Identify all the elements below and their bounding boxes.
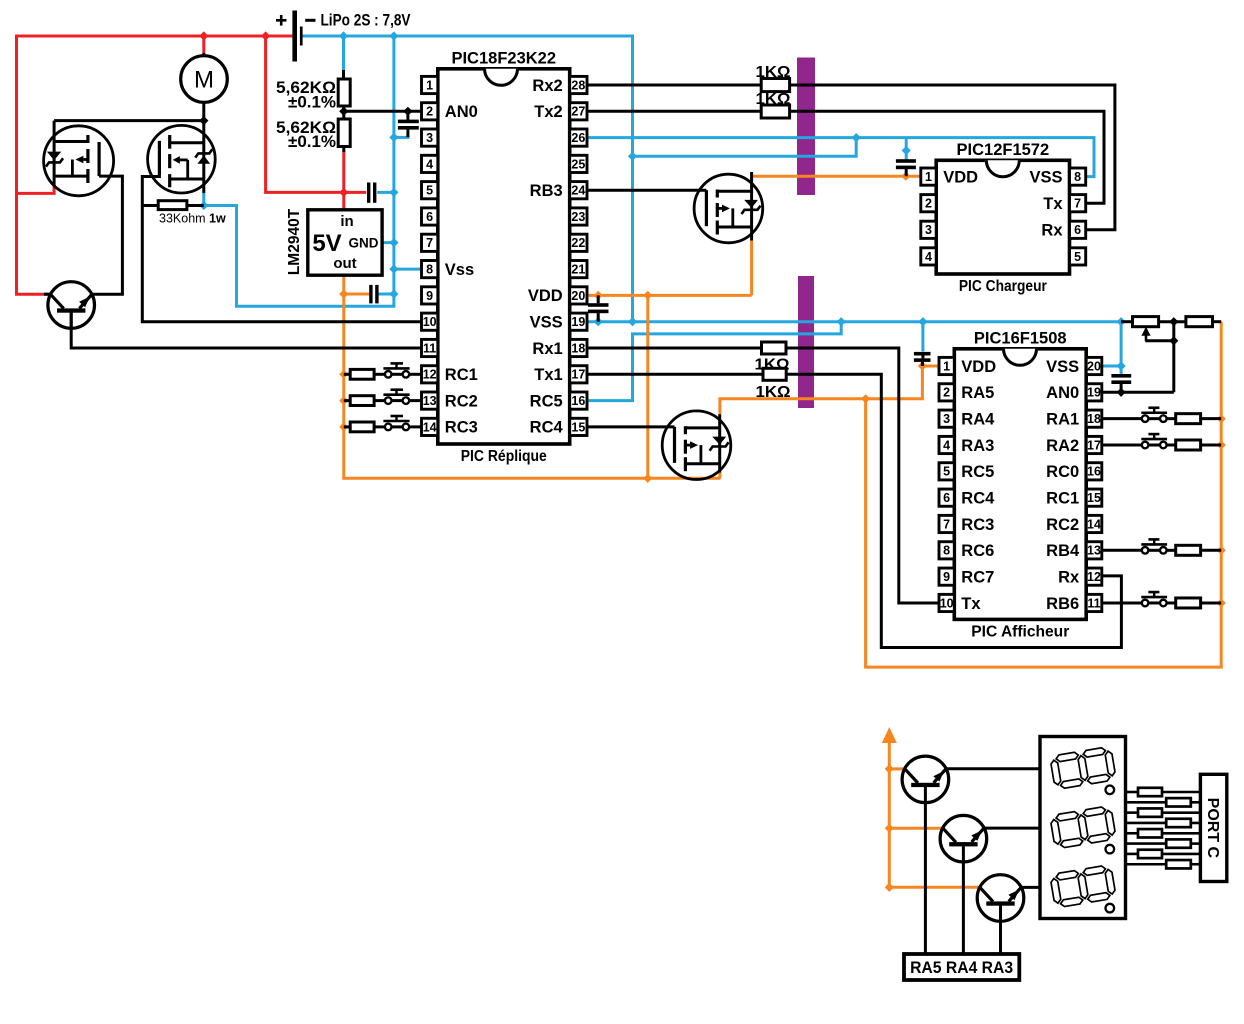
- resistor RA2 pullup: [1176, 440, 1201, 450]
- wire blue battery- bus to RC5 column: [303, 36, 633, 322]
- svg-text:±0.1%: ±0.1%: [288, 133, 336, 151]
- svg-text:9: 9: [426, 289, 433, 303]
- label pin name RC0: [1046, 463, 1079, 481]
- svg-text:1: 1: [426, 78, 433, 92]
- pin 2 of PIC18F23K22: [422, 103, 438, 120]
- pin 13 of PIC18F23K22: [422, 392, 438, 409]
- potentiometer RV1: [1133, 317, 1159, 327]
- svg-text:RC3: RC3: [445, 419, 478, 437]
- svg-text:1: 1: [925, 170, 932, 184]
- label pin name RA2: [1046, 437, 1079, 455]
- svg-text:RA5: RA5: [961, 384, 994, 402]
- wire blue Vss pin8 lead: [394, 268, 422, 271]
- label LM2940T 5V: [312, 230, 341, 257]
- resistor R2 5,62K lower: [338, 119, 350, 147]
- svg-text:28: 28: [571, 78, 585, 92]
- pin 7 of PIC12F1572: [1070, 195, 1086, 212]
- pin 7 of PIC18F23K22: [422, 234, 438, 251]
- pin 4 of PIC18F23K22: [422, 155, 438, 172]
- wire 33K left lead: [142, 204, 158, 207]
- resistor R1 5,62K upper: [338, 79, 350, 106]
- wire orange cap2 lead: [344, 293, 370, 296]
- wire pot wiper net: [1145, 341, 1174, 393]
- pin 8 of PIC18F23K22: [422, 261, 438, 278]
- switch button RA2: [1141, 434, 1167, 448]
- power symbol +5V arrow: [882, 727, 897, 887]
- wire segment line 7: [1126, 853, 1201, 856]
- label chip sub PIC Réplique: [461, 448, 547, 465]
- connector PORT C box: [1200, 774, 1226, 881]
- svg-text:RC3: RC3: [961, 516, 994, 534]
- svg-text:12: 12: [1087, 570, 1101, 584]
- svg-text:5: 5: [426, 184, 433, 198]
- pin 15 of PIC16F1508: [1086, 489, 1102, 506]
- MOSFET Q1: [44, 121, 114, 196]
- label R5 1KΩ: [756, 91, 791, 108]
- svg-text:M: M: [194, 67, 214, 94]
- pin 27 of PIC18F23K22: [570, 103, 587, 120]
- label R6 1KΩ: [755, 357, 790, 374]
- wire orange right-side bus: [866, 322, 1222, 667]
- resistor RC1 pullup: [350, 369, 374, 379]
- svg-text:15: 15: [1087, 491, 1101, 505]
- motor M letter: [194, 67, 214, 94]
- resistor segment R1: [1138, 788, 1162, 796]
- label pin name VDD: [528, 287, 563, 305]
- pin 9 of PIC18F23K22: [422, 287, 438, 304]
- svg-text:12: 12: [423, 368, 437, 382]
- pin 11 of PIC16F1508: [1086, 594, 1102, 611]
- svg-text:RA2: RA2: [1046, 437, 1079, 455]
- svg-text:PORT C: PORT C: [1204, 798, 1221, 859]
- capacitor C4 VDD-VSS PIC18: [588, 303, 609, 313]
- svg-text:6: 6: [1074, 223, 1081, 237]
- transistor T3 (digit driver): [940, 815, 987, 862]
- wire orange Q3 drain to PIC12 VDD: [752, 175, 921, 178]
- label pin name RB3: [530, 182, 563, 200]
- pin 16 of PIC18F23K22: [570, 392, 587, 409]
- pin 18 of PIC18F23K22: [570, 339, 587, 356]
- pin 20 of PIC16F1508: [1086, 357, 1102, 374]
- label PORT C: [1204, 798, 1221, 859]
- pin 6 of PIC12F1572: [1070, 221, 1086, 238]
- svg-text:13: 13: [1087, 544, 1101, 558]
- pin 13 of PIC16F1508: [1086, 542, 1102, 559]
- svg-text:Rx2: Rx2: [532, 77, 562, 95]
- label pin name RC3: [445, 419, 478, 437]
- wire motor stubs: [202, 53, 205, 121]
- label pin name RC4: [961, 489, 995, 507]
- wire +7,8V red bus left vertical: [17, 36, 293, 294]
- pin 3 of PIC16F1508: [939, 410, 954, 427]
- wire RB3 to Q3 gate: [587, 189, 706, 192]
- svg-text:7: 7: [1074, 197, 1081, 211]
- wire blue RC5 link: [587, 322, 841, 401]
- resistor RC3 pullup: [350, 422, 374, 432]
- pin 23 of PIC18F23K22: [570, 208, 587, 225]
- pin 16 of PIC16F1508: [1086, 463, 1102, 480]
- wire orange Q4 source to bus: [718, 473, 721, 479]
- wire Rx1 to 1K: [587, 347, 762, 350]
- label pin name RB6: [1046, 595, 1079, 613]
- wire segment line 4: [1126, 822, 1201, 825]
- svg-text:out: out: [333, 255, 356, 272]
- wire Rx2 to PIC12 Rx: [587, 85, 1115, 230]
- junction orange VDD line dots: [594, 291, 653, 483]
- label pin name Rx: [1058, 568, 1080, 586]
- pin 2 of PIC12F1572: [921, 195, 936, 212]
- pin 24 of PIC18F23K22: [570, 182, 587, 199]
- pin 26 of PIC18F23K22: [570, 129, 587, 146]
- label pin name Rx: [1041, 222, 1063, 240]
- pin 1 of PIC18F23K22: [422, 76, 438, 93]
- svg-text:23: 23: [571, 210, 585, 224]
- svg-text:10: 10: [423, 315, 437, 329]
- label R4 1KΩ: [756, 64, 791, 81]
- resistor segment R5: [1138, 829, 1162, 837]
- svg-text:RC2: RC2: [1046, 516, 1079, 534]
- svg-text:18: 18: [1087, 412, 1101, 426]
- wire motor to MOSFET drains: [54, 119, 204, 122]
- wire T1 left lead: [44, 293, 52, 296]
- wire Q2 gate to pin10: [142, 175, 421, 322]
- svg-text:1KΩ: 1KΩ: [756, 384, 791, 401]
- wire segment line 8: [1126, 863, 1201, 866]
- label pin name Tx2: [534, 103, 562, 121]
- label pin name RC1: [445, 366, 478, 384]
- pin 11 of PIC18F23K22: [422, 339, 438, 356]
- svg-text:LM2940T: LM2940T: [286, 208, 303, 275]
- pin 12 of PIC16F1508: [1086, 568, 1102, 585]
- capacitor C5 PIC12 VDD: [896, 159, 916, 169]
- svg-text:RB6: RB6: [1046, 595, 1079, 613]
- wire RB6 chain: [1102, 601, 1221, 604]
- svg-text:AN0: AN0: [445, 103, 478, 121]
- wire pot right link: [1172, 322, 1175, 341]
- wire 33K right lead: [187, 204, 204, 207]
- label chip title PIC16F1508: [974, 329, 1067, 347]
- svg-text:1KΩ: 1KΩ: [756, 91, 791, 108]
- pin 17 of PIC16F1508: [1086, 436, 1102, 453]
- label chip sub PIC Afficheur: [971, 623, 1069, 640]
- wire blue stub VSS cap right: [1120, 366, 1123, 374]
- svg-text:11: 11: [1087, 596, 1100, 610]
- transistor T1 base lead: [70, 313, 73, 330]
- battery LiPo 2S plates: [292, 11, 302, 62]
- display digit 1: [1050, 746, 1117, 790]
- svg-text:RC4: RC4: [530, 419, 564, 437]
- svg-text:15: 15: [571, 420, 585, 434]
- label pin name VSS: [530, 314, 563, 332]
- label pin name RC3: [961, 516, 994, 534]
- resistor segment R3: [1138, 808, 1162, 816]
- display digit 2: [1050, 806, 1117, 850]
- MOSFET Q2: [148, 121, 216, 194]
- label pin name VSS: [1046, 358, 1079, 376]
- label pin name VDD: [943, 168, 978, 186]
- svg-text:13: 13: [423, 394, 437, 408]
- wire blue cap1 to bus: [377, 191, 394, 194]
- svg-text:3: 3: [426, 131, 433, 145]
- wire 1K to PIC16 Tx: [786, 348, 939, 603]
- label pin name RA5: [961, 384, 994, 402]
- pin 8 of PIC16F1508: [939, 542, 954, 559]
- pin 22 of PIC18F23K22: [570, 234, 587, 251]
- svg-text:10: 10: [940, 596, 954, 610]
- switch button RB6: [1141, 592, 1167, 606]
- svg-text:PIC12F1572: PIC12F1572: [957, 141, 1050, 159]
- pin 1 of PIC12F1572: [921, 168, 936, 185]
- wire blue cap2 to bus: [378, 293, 394, 296]
- display digit 3: [1050, 865, 1117, 909]
- display digit 2 decimal point: [1106, 845, 1115, 854]
- wire T2 base lead: [924, 787, 927, 954]
- chip body PIC16F1508: [954, 349, 1086, 620]
- svg-text:±0.1%: ±0.1%: [288, 94, 336, 112]
- wire Tx2 to PIC12 Tx: [587, 111, 1104, 203]
- resistor R3 33Kohm: [158, 201, 187, 210]
- svg-text:LiPo 2S : 7,8V: LiPo 2S : 7,8V: [321, 11, 412, 30]
- label pin name Tx1: [534, 366, 562, 384]
- svg-text:3: 3: [943, 412, 950, 426]
- switch button RC2: [383, 390, 409, 404]
- label pin name Tx: [961, 595, 981, 613]
- label LM2940T out: [333, 255, 356, 272]
- svg-text:VDD: VDD: [961, 358, 996, 376]
- pin 4 of PIC16F1508: [939, 436, 954, 453]
- display 7-segment module box: [1040, 737, 1126, 919]
- label pin name RA1: [1046, 410, 1079, 428]
- label pin name RC2: [1046, 516, 1079, 534]
- pin 20 of PIC18F23K22: [570, 287, 587, 304]
- svg-text:5: 5: [1074, 250, 1081, 264]
- wire blue LM2940T GND lead: [382, 241, 394, 244]
- label pin name RB4: [1046, 542, 1080, 560]
- svg-text:Tx1: Tx1: [534, 366, 562, 384]
- svg-text:6: 6: [426, 210, 433, 224]
- svg-text:VDD: VDD: [528, 287, 563, 305]
- transistor T2 (digit driver): [902, 756, 949, 803]
- svg-text:8: 8: [1074, 170, 1081, 184]
- wire segment line 2: [1126, 801, 1201, 804]
- junction red node battery+/motor: [199, 31, 348, 197]
- svg-text:27: 27: [571, 105, 585, 119]
- pin 2 of PIC16F1508: [939, 384, 954, 401]
- svg-text:RA5 RA4 RA3: RA5 RA4 RA3: [910, 959, 1013, 977]
- wire blue to PIC16 decoupling cap: [921, 322, 924, 352]
- svg-text:VSS: VSS: [530, 314, 563, 332]
- svg-text:RA4: RA4: [961, 410, 995, 428]
- wire blue cap at AN0 to bus: [394, 136, 410, 139]
- resistor segment R4: [1166, 819, 1191, 827]
- pin 3 of PIC18F23K22: [422, 129, 438, 146]
- label R3 value: [159, 212, 226, 226]
- svg-text:7: 7: [426, 236, 433, 250]
- pin 28 of PIC18F23K22: [570, 76, 587, 93]
- wire T2 emitter to display: [946, 767, 1040, 770]
- svg-text:PIC Chargeur: PIC Chargeur: [959, 278, 1047, 295]
- MOSFET Q4 (RC4): [662, 411, 731, 480]
- label R1 value: [276, 79, 336, 112]
- svg-text:14: 14: [1087, 517, 1101, 531]
- junction blue battery bus dots: [339, 31, 399, 40]
- battery - sign: [305, 19, 315, 22]
- label RA5 RA4 RA3: [910, 959, 1013, 977]
- wire red branch to motor: [202, 36, 205, 53]
- capacitor C1 at AN0: [398, 120, 419, 130]
- wire segment line 6: [1126, 842, 1201, 845]
- switch button RC3: [383, 416, 409, 430]
- wire cap AN0 stubs: [406, 111, 409, 137]
- pin 14 of PIC18F23K22: [422, 418, 438, 435]
- regulator LM2940T box: [308, 210, 382, 275]
- wire 1K to PIC16 Rx: [786, 374, 1121, 647]
- svg-text:Rx1: Rx1: [532, 340, 562, 358]
- wire RC4 to Q4 gate: [587, 425, 675, 428]
- wire T3 emitter to display: [984, 827, 1040, 830]
- pin 19 of PIC16F1508: [1086, 384, 1102, 401]
- resistor R7 1K (Tx1): [763, 368, 786, 380]
- pin 10 of PIC18F23K22: [422, 313, 438, 330]
- svg-text:VDD: VDD: [943, 168, 978, 186]
- label LiPo 2S : 7,8V: [321, 11, 412, 30]
- svg-text:PIC Réplique: PIC Réplique: [461, 448, 547, 465]
- svg-text:17: 17: [1087, 438, 1101, 452]
- label R7 1KΩ: [756, 384, 791, 401]
- pin 14 of PIC16F1508: [1086, 515, 1102, 532]
- transistor T1 (motor driver): [48, 282, 95, 329]
- svg-text:RC1: RC1: [445, 366, 478, 384]
- chip body PIC18F23K22: [438, 69, 570, 444]
- svg-text:5V: 5V: [312, 230, 341, 257]
- resistor R8 at pot: [1186, 317, 1213, 327]
- label LM2940T name: [286, 208, 303, 275]
- wire divider leads: [342, 70, 345, 152]
- svg-text:21: 21: [571, 263, 585, 277]
- capacitor C7 PIC16 AN0: [1111, 374, 1131, 384]
- wire blue MOSFET Q2 drain to 33K node: [202, 193, 205, 206]
- svg-text:RC1: RC1: [1046, 489, 1079, 507]
- svg-text:Tx2: Tx2: [534, 103, 562, 121]
- label pin name RA4: [961, 410, 995, 428]
- svg-text:4: 4: [925, 250, 932, 264]
- wire RA2 chain: [1102, 443, 1221, 446]
- svg-text:Tx: Tx: [961, 595, 981, 613]
- capacitor C3 LM2940T out: [369, 285, 378, 304]
- svg-text:2: 2: [426, 105, 433, 119]
- pin 5 of PIC12F1572: [1070, 248, 1086, 265]
- label pin name RC4: [530, 419, 564, 437]
- svg-text:11: 11: [423, 341, 436, 355]
- potentiometer RV1 wiper arrow: [1141, 327, 1150, 341]
- junction blue 33K node: [199, 201, 208, 210]
- svg-text:VSS: VSS: [1046, 358, 1079, 376]
- junction orange display bus dots: [885, 764, 894, 892]
- svg-text:4: 4: [426, 157, 433, 171]
- pin 7 of PIC16F1508: [939, 515, 954, 532]
- pin 1 of PIC16F1508: [939, 357, 954, 374]
- svg-text:in: in: [340, 213, 353, 230]
- wire orange Q3 source to VDD line: [750, 241, 753, 296]
- display digit 3 decimal point: [1106, 904, 1115, 913]
- battery + sign: [276, 15, 287, 26]
- label pin name VDD: [961, 358, 996, 376]
- pin 3 of PIC12F1572: [921, 221, 936, 238]
- pin 12 of PIC18F23K22: [422, 366, 438, 383]
- label pin name RC5: [961, 463, 994, 481]
- resistor segment R6: [1166, 839, 1191, 847]
- junction blue ground-link dots: [628, 133, 911, 161]
- label chip sub PIC Chargeur: [959, 278, 1047, 295]
- wire red branch down to 5V regulator input: [266, 36, 367, 192]
- resistor RA1 pullup: [1176, 414, 1201, 424]
- svg-text:Rx: Rx: [1041, 222, 1063, 240]
- svg-text:16: 16: [1087, 465, 1101, 479]
- pin 8 of PIC12F1572: [1070, 168, 1086, 185]
- svg-text:Tx: Tx: [1043, 195, 1063, 213]
- svg-text:18: 18: [571, 341, 585, 355]
- wire orange Q4 drain to PIC16 VDD: [720, 366, 939, 414]
- junction orange LM out dots: [339, 289, 348, 431]
- svg-text:20: 20: [1087, 359, 1101, 373]
- wire blue vertical x394: [204, 36, 394, 306]
- wire red from divider to LM2940T in: [342, 151, 345, 210]
- svg-text:AN0: AN0: [1046, 384, 1079, 402]
- pin 5 of PIC18F23K22: [422, 182, 438, 199]
- wire orange riser to VDD line: [646, 295, 649, 478]
- svg-text:RC7: RC7: [961, 568, 994, 586]
- junction blue VSS line dots: [594, 317, 1126, 371]
- pin 19 of PIC18F23K22: [570, 313, 587, 330]
- wire orange LM2940T out / RC pullup bus: [344, 275, 721, 478]
- pin 9 of PIC16F1508: [939, 568, 954, 585]
- switch button RA1: [1141, 408, 1167, 422]
- pin 10 of PIC16F1508: [939, 594, 954, 611]
- svg-text:RB4: RB4: [1046, 542, 1080, 560]
- svg-text:RC5: RC5: [961, 463, 994, 481]
- wire orange VDD pin20 line: [587, 294, 752, 297]
- resistor R6 1K (Rx1): [762, 342, 787, 354]
- wire segment line 1: [1126, 791, 1201, 794]
- label pin name RA3: [961, 437, 994, 455]
- svg-text:Vss: Vss: [445, 261, 474, 279]
- wire T4 base lead: [999, 906, 1002, 955]
- svg-text:25: 25: [571, 157, 585, 171]
- node box RA5 RA4 RA3: [904, 954, 1019, 980]
- svg-text:PIC Afficheur: PIC Afficheur: [971, 623, 1069, 640]
- pin 15 of PIC18F23K22: [570, 418, 587, 435]
- junction orange right bus dots: [1217, 414, 1226, 607]
- svg-text:24: 24: [571, 184, 585, 198]
- label pin name AN0: [445, 103, 478, 121]
- wire cap right stub: [1120, 384, 1123, 393]
- pin 17 of PIC18F23K22: [570, 366, 587, 383]
- resistor RC2 pullup: [350, 396, 374, 406]
- label pin name RC2: [445, 392, 478, 410]
- wire PIC12 cap stub: [905, 160, 908, 176]
- resistor RB6 pullup: [1176, 598, 1201, 608]
- display digit 1 decimal point: [1106, 786, 1115, 795]
- pin 4 of PIC12F1572: [921, 248, 936, 265]
- svg-text:19: 19: [571, 315, 585, 329]
- wire blue pot lead and PIC16 VSS: [1102, 322, 1121, 366]
- wire Tx1 to 1K: [587, 373, 763, 376]
- svg-text:8: 8: [426, 263, 433, 277]
- label pin name Rx1: [532, 340, 562, 358]
- junction node divider mid: [339, 107, 412, 116]
- label pin name RC5: [530, 392, 563, 410]
- wire divider mid to AN0 pin2: [344, 110, 422, 113]
